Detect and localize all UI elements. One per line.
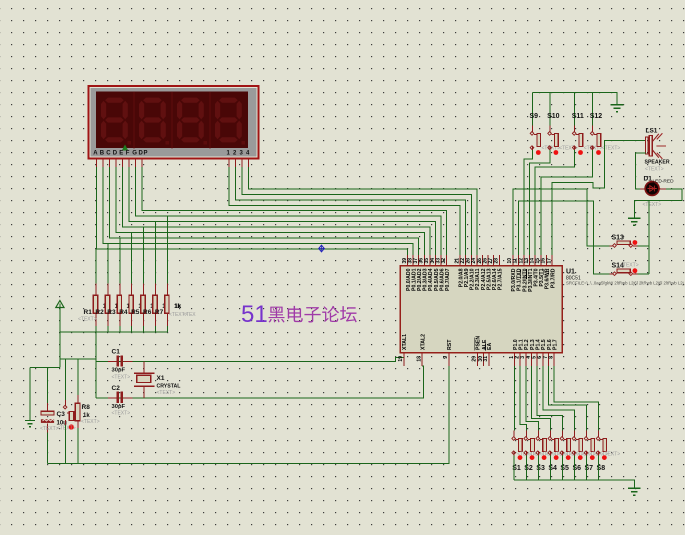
push button S3 [536,431,547,461]
svg-text:<TEXT>: <TEXT> [112,411,131,417]
U1 pin 27 (P2.6/A14) stub [493,255,495,266]
U1 pin 34 (P0.5/AD5) stub [435,255,437,266]
wire net RST: R8 bottom to bus [77,428,79,464]
svg-text:<TEXT>: <TEXT> [645,167,664,173]
resistor R1 1k [93,284,97,326]
junction node on net SEG_A (blue diamond) [319,245,325,252]
svg-text:R4: R4 [119,309,128,316]
svg-text:F: F [126,151,130,157]
power +5V symbol [56,301,64,309]
ground symbol (right, LED) [628,218,641,225]
svg-text:32: 32 [441,258,447,264]
speaker LS1 [645,133,666,159]
svg-text:S2: S2 [524,465,533,472]
svg-text:28: 28 [494,258,500,264]
wire net KEY5: U1 P1.4 to S5 [537,366,562,431]
svg-text:C3: C3 [57,411,66,418]
overline of P3.6/WR [542,269,544,275]
wire net VCC2 drop to S10 [549,93,551,126]
wire net GND: C3 top lead [47,368,49,404]
wire net KEY14: U1 P3.1 to S14 [518,201,609,274]
wire net GND: S3 bottom to bus [537,456,539,481]
wire net SEG_C: tee down to R3 [119,238,121,296]
wire net GND: bottom bus of S1-S8 [514,480,634,487]
wire net GND: drop to ground symbol [29,368,31,421]
wire net VCC: rail to reset parts [60,358,96,360]
wire net RST: bottom bus to U1 RST pin [48,366,449,464]
svg-text:P0.7/AD7: P0.7/AD7 [445,268,451,291]
wire net GND: S7 bottom to bus [586,456,588,481]
U1 pin 13 (P3.3/INT1) stub [529,255,531,266]
wire net GND: tee down to S13/S14 right side [648,200,650,274]
ground symbol (left, near C3) [25,421,35,427]
wire net VCC2 drop to S9 [532,93,534,126]
push button S6 [572,431,583,461]
wire net KEY6: U1 P1.5 to S6 [543,366,575,431]
wire net SPKB: speaker bottom to LED anode [636,153,647,189]
wire net SEG_B: display pin to U1 P0.1 [103,167,413,255]
capacitor C2 30pF [108,392,133,403]
overline of EA [485,344,487,351]
svg-text:C: C [106,151,111,157]
svg-text:R1: R1 [84,309,93,316]
svg-text:S6: S6 [572,465,581,472]
wire net KEY2: U1 P1.1 to S2 [520,366,526,431]
U1 pin 23 (P2.2/A10) stub [470,255,472,266]
U1 pin 25 (P2.4/A12) stub [482,255,484,266]
svg-text:B: B [100,151,105,157]
U1 pin 24 (P2.3/A11) stub [476,255,478,266]
svg-text:P: P [144,151,148,157]
U1 pin 14 (P3.4/T0) stub [534,255,536,266]
title text 51黑电子论坛 [241,301,357,328]
U1 pin 22 (P2.1/A9) stub [465,255,467,266]
wire net DIG4: display digit pin 4 to U1 P2.3 [249,167,477,255]
wire net SEG_G: tee down to R7 [166,216,168,296]
svg-text:PSEN: PSEN [476,336,482,350]
wire net VCC2: top bus of S9-S12 to ground [533,93,618,105]
wire net GND: S4 bottom to bus [549,456,551,481]
overline of P3.3/INT1 [525,269,527,279]
wire net XTAL2: C2 line to U1 [96,366,424,398]
wire net SPK: U1 P3.7 to speaker [552,141,646,256]
wire net VCC2 drop to S12 [592,93,594,126]
resistor R2 1k [105,284,109,326]
wire net KEY8: U1 P1.7 to S8 [554,366,598,431]
svg-text:RST: RST [447,339,453,350]
svg-text:30pF: 30pF [112,404,126,410]
svg-text:S13: S13 [612,235,625,242]
ground symbol (top right) [611,105,624,112]
U1 pin 10 (P3.0/RXD) stub [512,255,514,266]
wire net KEY13: U1 P3.0 to S13 [513,189,610,255]
wire net SEG_C: display pin to U1 P0.2 [110,167,419,255]
svg-text:S9: S9 [530,113,539,120]
wire net KEY4: U1 P1.3 to S4 [532,366,551,431]
svg-text:51: 51 [241,301,268,328]
U1 pin 17 (P3.7/RD) stub [551,255,553,266]
svg-text:S4: S4 [548,465,557,472]
svg-text:18: 18 [417,356,423,362]
U1 pin 19 (XTAL1) stub [403,353,405,366]
U1 pin 38 (P0.1/AD1) stub [412,255,414,266]
svg-text:S1: S1 [512,465,521,472]
resistor R6 1k [153,284,157,326]
wire net SEG_DP: display pin to U1 P0.7 [142,167,447,255]
U1 pin 12 (P3.2/INT0) stub [523,255,525,266]
U1 pin 26 (P2.5/A13) stub [487,255,489,266]
svg-text:<TEXT>: <TEXT> [40,426,59,432]
wire net GND: rail to C3 top [30,367,60,369]
push button S8 [596,431,607,461]
U1 pin 3 (P1.2) stub [525,353,527,366]
microcontroller U1 80C51 body [400,266,562,353]
svg-text:D: D [113,151,118,157]
svg-text:8: 8 [548,356,554,359]
push button S12 [590,125,601,155]
ground symbol (bottom right) [628,488,641,495]
U1 pin 37 (P0.2/AD2) stub [418,255,420,266]
wire net GND: LED cathode to ground [634,189,682,218]
U1 pin 35 (P0.4/AD4) stub [429,255,431,266]
push button S14 [610,268,638,275]
svg-text:R8: R8 [82,404,91,411]
4-digit 7-segment display DS1 [89,86,259,159]
U1 pin 7 (P1.6) stub [548,353,550,366]
svg-text:D1: D1 [644,176,653,183]
push button S10 [548,125,559,155]
wire net SEG_E: tee down to R5 [143,227,145,296]
svg-text:P3.7/RD: P3.7/RD [550,268,556,288]
wire net SEG_E: display pin to U1 P0.4 [123,167,430,255]
wire net KEY7: U1 P1.6 to S7 [549,366,587,431]
resistor R4 1k [129,284,133,326]
svg-text:<TEXT>: <TEXT> [78,317,97,323]
U1 pin 21 (P2.0/A8) stub [459,255,461,266]
svg-text:C1: C1 [112,349,121,356]
wire net GND: S6 bottom to bus [573,456,575,481]
svg-text:9: 9 [443,356,449,359]
svg-text:P2.7/A15: P2.7/A15 [498,268,504,290]
display digit pins 1-4 (red stubs) [228,159,230,167]
crystal X1 [134,362,154,398]
svg-text:R3: R3 [107,309,116,316]
svg-text:30pF: 30pF [112,368,126,374]
svg-text:S5: S5 [560,465,569,472]
LED D1 [640,182,666,196]
wire net GND: S1 bottom to bus [513,456,515,481]
svg-text:CRYSTAL: CRYSTAL [157,384,182,390]
U1 pin 9 (RST) stub [448,353,450,366]
wire net GND: S8 bottom to bus [598,456,600,481]
wire net KEY12: S12 to U1 P3.5 [541,150,593,255]
wire net SEG_G: display pin to U1 P0.6 [136,167,442,255]
wire net DIG2: display digit pin 2 to U1 P2.1 [236,167,466,255]
svg-text:31: 31 [483,356,489,362]
resistor R5 1k [141,284,145,326]
U1 pin 4 (P1.3) stub [531,353,533,366]
svg-text:S8: S8 [597,465,606,472]
wire net KEY9: S9 to U1 P3.2 [524,150,533,255]
wire net GND: S5 bottom to bus [561,456,563,481]
U1 pin 16 (P3.6/WR) stub [545,255,547,266]
svg-text:P1.7: P1.7 [552,339,558,350]
svg-text:S3: S3 [536,465,545,472]
overline of P3.2/INT0 [520,269,522,279]
svg-text:XTAL1: XTAL1 [402,334,408,350]
U1 pin 2 (P1.1) stub [519,353,521,366]
svg-text:<TEXT>: <TEXT> [112,375,131,381]
wire net RST: reset button bottom to bus [65,425,67,464]
wire net VCC: to reset button [65,359,67,400]
push button S5 [560,431,571,461]
wire net KEY11: S11 to U1 P3.4 [535,150,575,255]
display segment pins A-G,DP (red stubs) [96,159,98,167]
svg-text:U1: U1 [566,269,575,276]
capacitor C1 30pF [108,355,133,366]
U1 pin 6 (P1.5) stub [542,353,544,366]
wire net XTAL1: C1 line to U1 [96,358,404,362]
push button S2 [524,431,535,461]
wire net SEG_D: tee down to R4 [131,233,133,296]
wire S13 right to GND [637,245,649,247]
green indicator marker at segment G pin [122,145,128,151]
push button S1 [512,431,523,461]
resistor R7 1k [165,284,169,326]
svg-text:S10: S10 [547,113,560,120]
overline of P3.7/RD [548,269,550,275]
U1 pin 15 (P3.5/T1) stub [540,255,542,266]
svg-text:<TEXT>: <TEXT> [57,426,76,432]
U1 pin 30 (ALE) stub [483,353,485,366]
push button S9 [530,125,541,155]
wire S14 right to GND [637,273,649,275]
svg-text:LED-RED: LED-RED [653,179,675,185]
wire net SEG_B: tee down to R2 [107,244,109,296]
push button S11 [572,125,583,155]
svg-text:R5: R5 [131,309,140,316]
wire net DIG1: display digit pin 1 to U1 P2.0 [229,167,460,255]
svg-text:XTAL2: XTAL2 [421,334,427,350]
push button S7 [584,431,595,461]
push button S13 [610,240,638,247]
svg-text:E: E [119,151,123,157]
wire net KEY10: S10 to U1 P3.3 [530,150,551,255]
resistor R3 1k [117,284,121,326]
wire net RST: C3 bottom to bus [47,432,49,463]
svg-text:<TEXT>: <TEXT> [643,202,662,208]
U1 pin 28 (P2.7/A15) stub [498,255,500,266]
svg-text:17: 17 [546,258,552,264]
svg-text:SRCFILE=\..\..0aa5fgkW 2ltRwb: SRCFILE=\..\..0aa5fgkW 2ltRwb L2j6l 2ltR… [566,281,684,286]
svg-text:19: 19 [398,356,404,362]
svg-text:<TEXT>: <TEXT> [157,390,176,396]
U1 pin 18 (XTAL2) stub [421,353,423,366]
wire net VCC: vertical at x=95.7 [95,332,97,398]
U1 pin 39 (P0.0/AD0) stub [407,255,409,266]
U1 pin 5 (P1.4) stub [536,353,538,366]
U1 pin 36 (P0.3/AD3) stub [423,255,425,266]
push button (reset, unlabelled) [63,400,74,430]
U1 pin 8 (P1.7) stub [553,353,555,366]
wire net KEY1: U1 P1.0 to S1 [514,366,516,431]
U1 pin 29 (PSEN) stub [476,353,478,366]
svg-text:<TEXT>: <TEXT> [602,452,621,458]
svg-text:A: A [93,151,98,157]
wire net VCC: to R8 top [77,359,79,395]
wire net DIG3: display digit pin 3 to U1 P2.2 [242,167,471,255]
wire net GND: S2 bottom to bus [525,456,527,481]
svg-text:1k: 1k [175,304,182,310]
U1 pin 11 (P3.1/TXD) stub [517,255,519,266]
wire net VCC: resistor bottoms bus [95,326,97,332]
wire net SEG_F: tee down to R6 [155,222,157,296]
svg-text:X1: X1 [157,375,165,382]
svg-text:G: G [132,151,137,157]
wire net VCC: power drop [59,308,61,368]
wire net KEY3: U1 P1.2 to S3 [526,366,538,431]
svg-text:<TEXT>: <TEXT> [620,263,639,269]
U1 pin 33 (P0.6/AD6) stub [440,255,442,266]
svg-text:LS1: LS1 [646,128,658,135]
wire net SEG_A: tee down to R1 [95,249,97,296]
U1 pin 1 (P1.0) stub [514,353,516,366]
U1 pin 31 (EA) stub [488,353,490,366]
svg-text:EA: EA [487,343,493,350]
push button S4 [548,431,559,461]
svg-text:S7: S7 [585,465,594,472]
capacitor C3 10u (electrolytic) [41,403,54,432]
wire net SEG_F: display pin to U1 P0.5 [129,167,436,255]
svg-text:R2: R2 [95,309,104,316]
svg-text:S12: S12 [590,113,603,120]
wire net SEG_D: display pin to U1 P0.3 [116,167,424,255]
svg-text:R6: R6 [143,309,152,316]
U1 pin 32 (P0.7/AD7) stub [446,255,448,266]
svg-text:29: 29 [472,356,478,362]
svg-text:<TEX: <TEX [183,312,196,318]
overline of PSEN [473,338,475,351]
resistor R8 1k [75,395,80,428]
svg-text:<TEXT>: <TEXT> [81,419,100,425]
svg-text:S11: S11 [572,113,584,120]
svg-text:R7: R7 [155,309,164,316]
wire net VCC2 drop to S11 [574,93,576,126]
svg-text:SPEAKER: SPEAKER [645,160,670,166]
svg-text:C2: C2 [112,385,121,392]
wire net SEG_A: display pin to U1 P0.0 [97,167,408,255]
